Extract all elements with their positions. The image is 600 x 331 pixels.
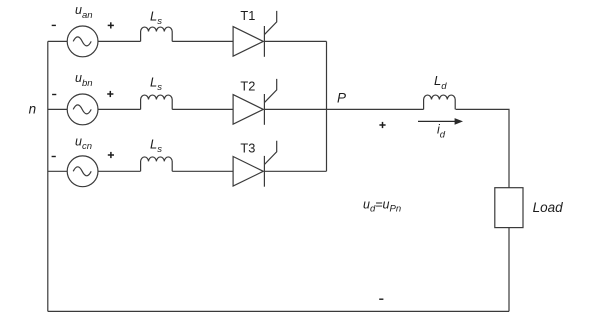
svg-text:ud=uPn: ud=uPn (363, 197, 401, 214)
inductor Ld (424, 95, 456, 109)
current arrow id (418, 118, 463, 125)
wire cathode bus (326, 41, 328, 171)
thyristor T2 (233, 79, 277, 125)
wire right lower (508, 228, 510, 312)
svg-text:T2: T2 (240, 79, 255, 94)
svg-text:Ld: Ld (434, 73, 447, 92)
wire row2 d (264, 108, 326, 110)
label minus row2 (52, 94, 56, 96)
label plus row1 (108, 22, 114, 28)
inductor Ls row1 (141, 27, 173, 41)
svg-text:Ls: Ls (150, 137, 162, 155)
source u_an (67, 26, 98, 57)
label minus row3 (52, 156, 56, 158)
wire row1 c (172, 40, 233, 42)
wire row1 b (98, 40, 141, 42)
svg-text:ucn: ucn (75, 135, 92, 152)
svg-text:P: P (337, 90, 346, 105)
svg-text:Load: Load (533, 200, 564, 215)
svg-text:T3: T3 (240, 140, 255, 155)
svg-text:Ls: Ls (150, 9, 162, 27)
wire row2 a (48, 108, 68, 110)
wire bottom return (48, 310, 509, 312)
wire row3 a (48, 170, 68, 172)
wire right upper (456, 109, 509, 187)
svg-text:n: n (29, 101, 37, 116)
svg-text:ubn: ubn (75, 71, 93, 89)
wire row3 d (264, 170, 326, 172)
inductor Ls row2 (141, 95, 173, 109)
label plus row3 (108, 152, 114, 158)
thyristor T3 (233, 141, 277, 187)
thyristor T1 (233, 11, 277, 57)
source u_bn (67, 94, 98, 125)
wire row1 d (264, 40, 326, 42)
label minus row1 (52, 24, 56, 26)
svg-text:id: id (437, 122, 446, 140)
load resistor (495, 188, 523, 228)
wire row3 b (98, 170, 141, 172)
svg-text:uan: uan (75, 3, 93, 21)
wire bus to Ld (327, 108, 424, 110)
source u_cn (67, 156, 98, 187)
label plus output (379, 122, 385, 128)
wire row2 c (172, 108, 233, 110)
wire row2 b (98, 108, 141, 110)
svg-text:T1: T1 (240, 8, 255, 23)
label plus row2 (107, 91, 113, 97)
label minus output (379, 298, 383, 300)
wire row1 a (48, 40, 68, 42)
svg-text:Ls: Ls (150, 74, 162, 92)
wire row3 c (172, 170, 233, 172)
inductor Ls row3 (141, 157, 173, 171)
wire left bus n (47, 41, 49, 311)
